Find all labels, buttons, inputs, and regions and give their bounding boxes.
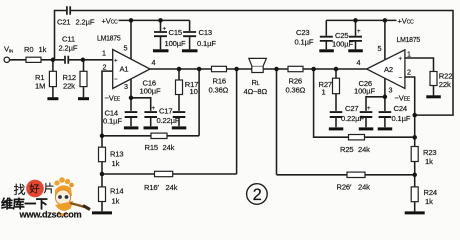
node A (input junction) [51,58,56,63]
resistor R17 [176,80,183,95]
ground C13 [182,49,198,52]
svg-text:C24: C24 [394,104,407,113]
svg-text:R16′: R16′ [144,183,159,192]
wire pin3 A2 to -Vee node [384,78,386,96]
wire pin5 A2 [384,20,386,59]
svg-text:1k: 1k [39,45,47,54]
svg-text:1k: 1k [425,197,433,206]
capacitor C26 plates [360,112,373,117]
ground R1 [47,97,58,100]
svg-text:R12: R12 [63,73,76,82]
ground R14 [92,211,112,214]
node speaker left [234,67,239,72]
node R25/R23 junction [412,135,417,140]
wire C23 stem [325,20,327,35]
svg-text:R16: R16 [213,76,226,85]
svg-text:C21: C21 [57,18,70,27]
svg-text:A2: A2 [384,65,393,74]
svg-text:0.1µF: 0.1µF [197,39,216,48]
svg-text:R23: R23 [423,148,436,157]
svg-text:4Ω~8Ω: 4Ω~8Ω [244,87,268,96]
wire top feedback C21 run [55,11,454,116]
resistor R24 [411,187,418,202]
svg-text:R1: R1 [35,73,44,82]
svg-text:www.dzsc.com: www.dzsc.com [19,210,82,220]
ground C14 [124,126,138,129]
wire pin2 A1 to feedback bus [102,71,113,147]
svg-text:R15: R15 [145,143,158,152]
wire pin3 A1 to -Vee node [130,78,132,97]
svg-text:+: + [163,27,167,33]
svg-text:R24: R24 [424,188,437,197]
svg-text:1M: 1M [35,82,45,91]
ground R22 [426,95,441,98]
svg-text:0.36Ω: 0.36Ω [209,85,229,94]
ground C16 [144,126,159,129]
svg-text:R22: R22 [439,71,452,80]
wire R15 feedback horizontal [102,135,199,137]
svg-text:R13: R13 [110,149,123,158]
node B (C11/R12 junction) [81,58,86,63]
node R25 tap [311,67,316,72]
svg-text:C23: C23 [296,28,309,37]
resistor R26 [288,66,303,71]
resistor R25 [349,135,365,140]
resistor R26' [347,172,365,177]
resistor R16' [155,171,173,176]
svg-text:R0: R0 [24,45,33,54]
capacitor C13 plates [183,32,196,36]
svg-text:24k: 24k [166,183,178,192]
watermark red seal [26,180,44,198]
capacitor C25 plates [349,37,362,41]
wire pin5 A1 [130,20,132,59]
svg-text:2.2µF: 2.2µF [59,44,78,53]
wire R12 branch [83,60,85,97]
resistor R13 [99,147,106,162]
svg-text:−: − [114,77,118,83]
wire pin2 A2 down [405,77,415,115]
svg-text:C11: C11 [62,35,75,44]
svg-text:−: − [399,75,403,81]
svg-text:+: + [399,57,403,63]
wire R26' run [277,69,415,175]
op-amp U1 A1 [113,50,150,89]
svg-text:24k: 24k [358,183,370,192]
wire R22 to ground [433,86,435,96]
capacitor C15 plates [154,32,167,36]
wire C25 stem [355,20,357,35]
resistor R14 [99,187,106,202]
speaker RL [249,58,267,72]
ground C26 [359,127,374,130]
capacitor C14 plates [125,112,138,117]
wire C23 C25 lower stems [326,41,355,49]
svg-text:LM1875: LM1875 [397,37,421,44]
resistor R22 [430,72,437,86]
svg-text:+: + [357,29,361,35]
wire C16 C17 lower stems [151,118,179,126]
ground R24 [405,211,425,214]
capacitor C23 plates [320,37,333,41]
input terminal Vin [4,57,9,62]
node C15 Vcc [158,18,163,23]
svg-text:5: 5 [124,44,128,53]
svg-text:24k: 24k [163,143,175,152]
op-amp U2 A2 [367,50,405,89]
svg-text:0.22µF: 0.22µF [157,116,180,125]
capacitor C21 [67,6,70,15]
svg-text:100µF: 100µF [165,39,186,48]
wire +Vcc rail A2 [326,19,396,21]
svg-text:5: 5 [378,44,382,53]
ground C17 [172,126,187,129]
capacitor C24 plates [379,112,392,117]
wire R1 branch [52,60,54,97]
svg-text:4: 4 [152,58,156,67]
wire R15 feedback vertical [198,69,200,136]
svg-text:0.36Ω: 0.36Ω [286,85,306,94]
node C25 Vcc [353,18,358,23]
ground C27 [329,127,344,130]
resistor R15 [151,133,167,138]
ground C24 [378,127,393,130]
wire main output line [150,68,367,70]
svg-text:1: 1 [322,87,326,96]
svg-text:C17: C17 [159,106,172,115]
resistor R23 [411,147,418,162]
node R26'/R24 junction [412,173,417,178]
node speaker right [274,67,279,72]
wire input line [9,59,112,61]
svg-text:片: 片 [44,182,55,195]
svg-text:C13: C13 [199,28,212,37]
node pin2 A2 junction [412,113,417,118]
svg-text:0.1µF: 0.1µF [295,37,314,46]
svg-text:1: 1 [407,49,411,58]
svg-text:10: 10 [190,87,198,96]
resistor R0 [26,57,41,62]
svg-text:R26′: R26′ [337,183,352,192]
node R15 tap [197,67,202,72]
svg-text:C27: C27 [345,104,358,113]
wire R27 branch [335,69,337,111]
resistor R16 [212,66,227,71]
resistor R1 [49,71,56,86]
svg-text:+: + [152,106,156,112]
svg-text:22k: 22k [63,82,75,91]
svg-text:+: + [367,106,371,112]
svg-text:找: 找 [14,183,26,197]
svg-text:好: 好 [30,184,40,196]
capacitor C11 [65,56,68,64]
svg-text:2.2µF: 2.2µF [76,18,95,27]
wire R17 branch [178,69,180,80]
wire pin1 A2 to R22 [405,58,434,72]
svg-text:A1: A1 [120,65,129,74]
resistor R12 [80,71,87,86]
svg-text:2: 2 [407,68,411,77]
watermark mascot [54,177,90,215]
node R15/R13 junction [100,134,105,139]
svg-text:C15: C15 [169,28,182,37]
svg-text:0.1µF: 0.1µF [392,114,411,123]
ground R12 [78,97,89,100]
svg-text:22k: 22k [439,80,451,89]
wire C26 C27 C24 lower stems [336,118,385,127]
ground C25 [348,49,363,52]
capacitor C17 plates [173,112,186,117]
node R17 tap [177,67,182,72]
node R27 tap [334,67,339,72]
svg-text:R25: R25 [340,145,353,154]
wire +Vcc rail A1 [119,19,190,21]
node -Vee A1 [129,96,134,101]
svg-text:4: 4 [357,58,361,67]
svg-text:1k: 1k [425,157,433,166]
capacitor C16 plates [144,112,157,117]
figure number circle 2 [247,184,268,205]
node R16'/R14 junction [100,172,105,177]
svg-text:1k: 1k [112,159,120,168]
wire left bus R13-R14 [101,162,103,212]
svg-text:R14: R14 [110,187,123,196]
ground C15 [153,49,169,52]
node pin5 A1 Vcc [129,18,134,23]
svg-text:100µF: 100µF [140,86,161,95]
wire right bus [414,115,416,211]
svg-text:R26: R26 [289,76,302,85]
wire R25 feedback [314,69,415,137]
wire R17 to C17 [178,95,180,111]
svg-text:24k: 24k [358,145,370,154]
capacitor C27 plates [330,112,343,117]
svg-text:2: 2 [253,186,262,204]
svg-text:1: 1 [102,48,106,57]
wire R16' run [102,69,237,174]
svg-text:LM1875: LM1875 [97,36,121,43]
svg-text:+: + [114,58,118,64]
ground C23 [319,49,334,52]
wire -Vee node to C16 [131,98,151,111]
svg-text:100µF: 100µF [332,39,353,48]
svg-text:2: 2 [103,63,107,72]
svg-text:3: 3 [124,82,128,91]
wire C24 branch [384,97,386,111]
wire C15 C13 stems [161,20,190,49]
svg-text:3: 3 [389,85,393,94]
svg-text:100µF: 100µF [354,86,375,95]
resistor R27 [333,78,340,94]
wire -Vee node to C26 [366,97,385,111]
svg-text:0.22µF: 0.22µF [341,114,364,123]
wire C14 stem [130,98,132,127]
svg-text:1k: 1k [112,197,120,206]
svg-text:0.1µF: 0.1µF [103,116,122,125]
node pin5 A2 Vcc [383,18,388,23]
node -Vee A2 [383,95,388,100]
